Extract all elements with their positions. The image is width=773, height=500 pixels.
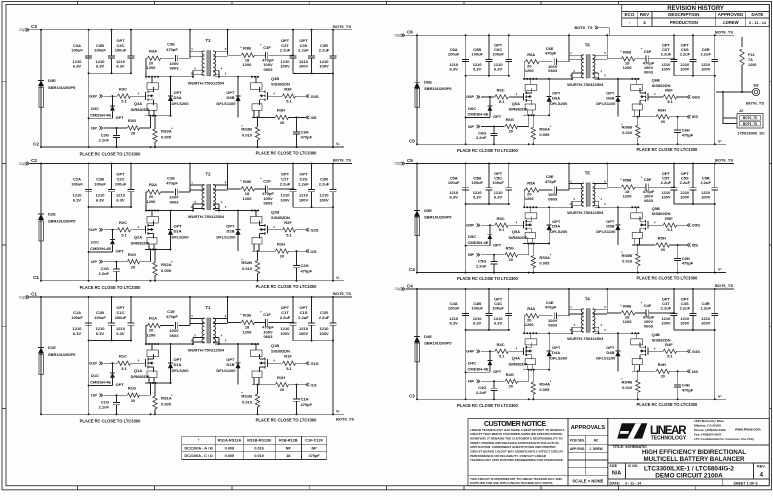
capacitor C5C optional (508, 164, 510, 188)
svg-text:BOT6_TS: BOT6_TS (743, 122, 757, 126)
svg-text:G1S: G1S (311, 361, 319, 366)
svg-text:100V: 100V (680, 195, 690, 200)
svg-text:0603: 0603 (548, 68, 558, 73)
resistor R3A snubber (146, 57, 148, 59)
svg-text:470pF: 470pF (682, 261, 694, 266)
svg-text:20: 20 (131, 264, 136, 269)
svg-text:100V: 100V (680, 321, 690, 326)
capacitor C6S optional (692, 35, 694, 59)
wire right cap tie (674, 75, 715, 77)
svg-text:OPT: OPT (493, 369, 502, 374)
svg-text:0.008: 0.008 (225, 446, 235, 450)
svg-text:BOT6_TS: BOT6_TS (746, 101, 764, 106)
svg-text:D3A: D3A (174, 95, 182, 100)
svg-text:IC NO.: IC NO. (628, 464, 638, 468)
connector J2 (723, 117, 737, 119)
linear technology logo (617, 423, 687, 441)
resistor R3B secondary snubber (228, 54, 242, 56)
gate drive G4S output (689, 350, 691, 353)
svg-text:RS2B: RS2B (241, 260, 252, 265)
diode D3A DFLS260 optional (170, 77, 172, 96)
svg-text:0603: 0603 (170, 333, 180, 338)
resistor R6B secondary snubber (607, 58, 621, 60)
svg-text:R4G: R4G (506, 372, 514, 377)
svg-text:6.3V: 6.3V (473, 195, 482, 200)
capacitor C4S optional (692, 289, 694, 313)
svg-text:Q4B: Q4B (652, 332, 660, 337)
svg-text:PLACE RC CLOSE TO LTC3300: PLACE RC CLOSE TO LTC3300 (636, 275, 698, 280)
svg-text:SiR882DP: SiR882DP (131, 374, 150, 379)
svg-text:SBR10U200P5: SBR10U200P5 (424, 214, 452, 219)
svg-text:DATE: DATE (751, 12, 763, 17)
svg-text:6.3V: 6.3V (73, 331, 82, 336)
svg-text:D5B: D5B (606, 224, 614, 229)
svg-text:C1H: C1H (301, 397, 309, 402)
svg-text:D6A: D6A (552, 95, 560, 100)
capacitor C4T optional (673, 289, 675, 313)
svg-text:0.005: 0.005 (161, 402, 172, 407)
svg-text:6.3V: 6.3V (450, 66, 459, 71)
svg-text:G1P: G1P (89, 361, 97, 366)
wire right edge vertical V- (332, 164, 334, 190)
svg-text:100V: 100V (661, 66, 671, 71)
svg-text:2.2uF: 2.2uF (319, 315, 330, 320)
svg-text:BOT6_TS: BOT6_TS (333, 291, 351, 296)
resistor R4C gate (495, 349, 508, 353)
resistor R1G (128, 393, 140, 397)
svg-text:0.005: 0.005 (539, 132, 550, 137)
svg-text:C6F: C6F (644, 49, 652, 54)
svg-text:R1C: R1C (119, 354, 127, 359)
svg-text:R2H: R2H (277, 241, 285, 246)
svg-text:100uF: 100uF (492, 180, 504, 185)
mosfet Q5A SiR882DP (529, 207, 531, 213)
svg-text:1206: 1206 (243, 329, 253, 334)
svg-text:D1C: D1C (91, 373, 99, 378)
svg-text:C6: C6 (407, 30, 413, 35)
svg-text:APP ENG.: APP ENG. (570, 447, 585, 451)
wire BOT6_TS to pad (716, 91, 752, 93)
svg-text:2.2uF: 2.2uF (700, 306, 711, 311)
mosfet Q4B SiS892DN (635, 333, 637, 339)
svg-text:C2: C2 (33, 141, 39, 146)
wire source row primary (526, 365, 528, 370)
svg-text:I3P: I3P (91, 126, 97, 131)
svg-text:470pF: 470pF (682, 132, 694, 137)
svg-text:470pF: 470pF (545, 51, 557, 56)
svg-text:C6(0): C6(0) (395, 33, 403, 37)
wire top rail C6 (417, 34, 734, 36)
diode D2B DFLS1100 optional (237, 211, 239, 230)
svg-text:2.2uF: 2.2uF (680, 52, 691, 57)
resistor R3H (258, 116, 276, 118)
sense resistor RS4A (532, 370, 534, 382)
svg-text:Q2A: Q2A (134, 235, 142, 240)
svg-text:SUPPLIED FOR USE WITH LINEAR T: SUPPLIED FOR USE WITH LINEAR TECHNOLOGY … (470, 481, 553, 485)
svg-text:BOT6_TS: BOT6_TS (333, 24, 351, 29)
svg-text:R5B: R5B (623, 178, 631, 183)
svg-text:RS6B: RS6B (622, 125, 633, 130)
svg-text:Q1B: Q1B (271, 343, 279, 348)
svg-text:6.3V: 6.3V (494, 321, 503, 326)
svg-text:DFLS260: DFLS260 (172, 368, 190, 373)
svg-text:OPT: OPT (116, 115, 125, 120)
svg-text:PLACE RC CLOSE TO LTC3300: PLACE RC CLOSE TO LTC3300 (256, 284, 318, 289)
svg-text:6.3V: 6.3V (450, 195, 459, 200)
svg-text:470pF: 470pF (301, 135, 313, 140)
svg-text:20: 20 (280, 254, 285, 259)
svg-text:J.DREW: J.DREW (722, 20, 738, 25)
svg-text:6.3V: 6.3V (96, 64, 105, 69)
wire snubber drop (145, 192, 147, 211)
diode D6B DFLS1100 optional (617, 79, 619, 97)
svg-text:D5E: D5E (424, 208, 432, 213)
wire right edge vertical V- (332, 297, 334, 323)
svg-text:10: 10 (569, 74, 573, 78)
svg-text:R6A: R6A (527, 52, 535, 57)
svg-text:R5C: R5C (497, 216, 505, 221)
svg-text:100V: 100V (680, 66, 690, 71)
svg-text:R1B-R12B: R1B-R12B (279, 439, 298, 443)
diode D2A DFLS260 optional (170, 211, 172, 230)
transformer T3 WURTH-750312504 (207, 51, 211, 76)
svg-text:D5A: D5A (552, 224, 560, 229)
sense resistor RS5A (532, 244, 534, 256)
svg-text:2.2uF: 2.2uF (298, 181, 309, 186)
svg-text:20: 20 (509, 384, 514, 389)
svg-text:2.2nF: 2.2nF (99, 137, 110, 142)
svg-text:G2P: G2P (89, 227, 97, 232)
svg-text:R4B: R4B (623, 303, 631, 308)
svg-text:RS3A: RS3A (161, 128, 172, 133)
svg-text:OPT: OPT (116, 382, 125, 387)
balancer cell block 6 (395, 29, 735, 153)
svg-text:6.3V: 6.3V (450, 321, 459, 326)
svg-text:I2P: I2P (91, 259, 97, 264)
resistor R4F gate secondary (648, 350, 663, 352)
svg-text:20: 20 (661, 247, 666, 252)
svg-text:5.1: 5.1 (286, 366, 292, 371)
svg-text:100uF: 100uF (492, 306, 504, 311)
gate drive G3S output (308, 94, 310, 97)
resistor R2A snubber (146, 191, 148, 193)
wire capacitor bus vertical (88, 30, 90, 147)
svg-text:LTC3300ILXE-1 / LTC6804IG-2: LTC3300ILXE-1 / LTC6804IG-2 (644, 465, 734, 472)
svg-text:100uF: 100uF (94, 48, 106, 53)
capacitor C6T optional (673, 35, 675, 59)
svg-text:D4C: D4C (468, 360, 476, 365)
svg-text:D1E: D1E (48, 345, 56, 350)
capacitor C4B (488, 289, 490, 313)
svg-text:PLACE RC CLOSE TO LTC3300: PLACE RC CLOSE TO LTC3300 (256, 150, 318, 155)
svg-text:2.2uF: 2.2uF (661, 52, 672, 57)
svg-text:RS4B: RS4B (622, 380, 633, 385)
svg-text:470pF: 470pF (545, 305, 557, 310)
resistor R2C gate (118, 228, 131, 232)
svg-text:R5F: R5F (665, 216, 673, 221)
svg-text:20: 20 (661, 119, 666, 124)
svg-text:2.2nF: 2.2nF (476, 390, 487, 395)
wire drain row primary (524, 332, 572, 334)
title block frame (608, 419, 770, 486)
svg-text:470pF: 470pF (301, 402, 313, 407)
balancer cell block 5 (395, 158, 735, 282)
wire left edge vertical (40, 164, 42, 281)
svg-text:C4(0): C4(0) (395, 287, 403, 291)
capacitor C3G filter (116, 128, 118, 135)
svg-text:BOT6_TS: BOT6_TS (574, 25, 592, 30)
capacitor C5A (465, 164, 467, 188)
svg-text:0.010: 0.010 (242, 400, 253, 405)
svg-text:R3C: R3C (119, 86, 127, 91)
wire right edge vertical V- (714, 289, 716, 313)
resistor R4A snubber (524, 315, 526, 317)
svg-text:DESCRIPTION: DESCRIPTION (668, 12, 700, 17)
resistor R5C gate (495, 223, 508, 227)
svg-text:2.2uF: 2.2uF (319, 181, 330, 186)
svg-text:0.005: 0.005 (225, 454, 235, 458)
wire right edge vertical V- (714, 164, 716, 188)
svg-text:1206: 1206 (147, 332, 157, 337)
svg-text:5.1: 5.1 (121, 99, 127, 104)
svg-text:2.2uF: 2.2uF (661, 180, 672, 185)
svg-text:100V: 100V (319, 64, 329, 69)
wire source row primary (526, 110, 528, 115)
svg-text:DFLS1100: DFLS1100 (596, 229, 616, 234)
svg-text:6.3V: 6.3V (116, 331, 125, 336)
svg-text:R6B: R6B (623, 49, 631, 54)
wire top rail C3 (41, 29, 352, 31)
svg-text:PCB DES.: PCB DES. (570, 439, 585, 443)
svg-text:C1(0): C1(0) (19, 295, 27, 299)
diode D6C CMDSH-4E optional (489, 97, 491, 106)
svg-text:C3: C3 (409, 394, 415, 399)
svg-text:REV.: REV. (757, 465, 766, 469)
diode D5C CMDSH-4E optional (489, 225, 491, 234)
svg-text:0603: 0603 (170, 66, 180, 71)
diode D1B DFLS1100 optional (237, 344, 239, 363)
capacitor C1A (88, 297, 90, 323)
svg-text:WURTH-750312504: WURTH-750312504 (567, 210, 604, 215)
svg-text:0.010: 0.010 (622, 130, 633, 135)
svg-text:T5: T5 (585, 171, 591, 176)
svg-text:R2F: R2F (284, 220, 292, 225)
svg-text:470pF: 470pF (166, 181, 178, 186)
wire capacitor bottom tie (466, 75, 509, 77)
svg-text:SHEET 1 OF 6: SHEET 1 OF 6 (734, 481, 758, 485)
svg-text:100V: 100V (299, 64, 309, 69)
wire right cap tie (674, 203, 715, 205)
capacitor C4F secondary snubber (635, 312, 646, 314)
wire drain row secondary (215, 343, 259, 345)
svg-text:20: 20 (280, 387, 285, 392)
svg-text:R2B: R2B (243, 179, 251, 184)
wire capacitor bottom tie (89, 72, 131, 74)
svg-text:0.010: 0.010 (254, 454, 264, 458)
wire source row secondary (633, 110, 635, 117)
svg-text:PLACE RC CLOSE TO LTC3300: PLACE RC CLOSE TO LTC3300 (457, 403, 519, 408)
svg-text:1206: 1206 (623, 65, 633, 70)
svg-text:100uF: 100uF (71, 315, 83, 320)
capacitor C5B (488, 164, 490, 188)
svg-text:PLACE RC CLOSE TO LTC3300: PLACE RC CLOSE TO LTC3300 (457, 148, 519, 153)
svg-text:RS6A: RS6A (539, 127, 550, 132)
svg-text:V-: V- (336, 275, 340, 280)
mosfet Q6A SiR882DP (529, 79, 531, 85)
svg-text:SBR10U200P5: SBR10U200P5 (424, 86, 452, 91)
svg-text:5.1: 5.1 (121, 366, 127, 371)
wire capacitor bus vertical (465, 289, 467, 399)
resistor R1C gate (118, 361, 131, 365)
capacitor C3B (111, 30, 113, 56)
transformer T2 WURTH-750312504 (207, 185, 211, 210)
wire bottom rail (41, 413, 344, 415)
svg-text:C1F-C12F: C1F-C12F (305, 439, 323, 443)
svg-text:R3A: R3A (149, 48, 157, 53)
svg-text:DFLS1100: DFLS1100 (216, 235, 236, 240)
svg-text:470pF: 470pF (545, 179, 557, 184)
balancer cell block 3 (19, 24, 352, 157)
svg-text:0.016: 0.016 (254, 446, 264, 450)
wire drain row primary (146, 210, 193, 212)
svg-text:100uF: 100uF (94, 315, 106, 320)
capacitor C3H (296, 117, 298, 131)
svg-text:DEMO CIRCUIT 2100A: DEMO CIRCUIT 2100A (655, 473, 723, 480)
wire snubber drop (145, 58, 147, 77)
resistor R3F gate secondary (268, 95, 283, 97)
svg-text:2.2uF: 2.2uF (700, 52, 711, 57)
svg-text:RS1A: RS1A (161, 396, 172, 401)
svg-text:G3P: G3P (89, 93, 97, 98)
svg-text:R6F: R6F (665, 88, 673, 93)
svg-text:1206: 1206 (147, 65, 157, 70)
svg-text:Phone: (408)432-1900: Phone: (408)432-1900 (694, 428, 726, 432)
svg-text:R4C: R4C (497, 342, 505, 347)
balancer cell block 4 (395, 283, 735, 408)
svg-text:C1: C1 (31, 291, 37, 296)
svg-text:C3(0): C3(0) (19, 28, 27, 32)
wire drain row secondary (595, 332, 640, 334)
capacitor C4C optional (508, 289, 510, 313)
wire capacitor bottom tie (89, 340, 131, 342)
mosfet Q5B SiS892DN (635, 207, 637, 213)
svg-text:APPROVED: APPROVED (718, 12, 744, 17)
capacitor C1C optional (130, 297, 132, 323)
svg-text:R4H: R4H (658, 362, 666, 367)
svg-text:I3S: I3S (311, 115, 317, 120)
transformer T5 WURTH-750312504 (586, 183, 590, 206)
resistor R6H (638, 116, 656, 118)
wire right cap tie (293, 206, 333, 208)
sense resistor RS1A (154, 383, 156, 396)
svg-text:100V: 100V (319, 197, 329, 202)
svg-text:REV: REV (640, 12, 650, 17)
gate drive G2S output (308, 228, 310, 231)
capacitor C3E snubber (175, 55, 177, 62)
svg-text:R2C: R2C (119, 220, 127, 225)
svg-text:C2F: C2F (263, 179, 271, 184)
svg-text:SBR10U200P5: SBR10U200P5 (48, 85, 76, 90)
svg-text:100uF: 100uF (448, 306, 460, 311)
svg-text:470pF: 470pF (309, 454, 321, 458)
svg-text:1206: 1206 (525, 196, 535, 201)
resistor R6A snubber (524, 61, 526, 63)
capacitor C3S optional (311, 30, 313, 56)
wire bottom rail (41, 146, 344, 148)
svg-text:6.3V: 6.3V (494, 66, 503, 71)
svg-text:1206: 1206 (748, 63, 756, 67)
svg-text:6.3V: 6.3V (96, 331, 105, 336)
capacitor C1T optional (292, 297, 294, 323)
svg-text:100uF: 100uF (71, 181, 83, 186)
svg-text:CMDSH-4E: CMDSH-4E (468, 112, 489, 117)
svg-text:N/A: N/A (612, 471, 621, 477)
sense resistor RS6A (532, 115, 534, 127)
capacitor C3A (88, 30, 90, 56)
svg-text:100V: 100V (701, 195, 711, 200)
diode D5B DFLS1100 optional (617, 207, 619, 225)
svg-text:6.3V: 6.3V (473, 66, 482, 71)
current sense I1S output (308, 383, 310, 386)
svg-text:SBR10U200P5: SBR10U200P5 (424, 341, 452, 346)
svg-text:I1P: I1P (91, 393, 97, 398)
capacitor C3T optional (292, 30, 294, 56)
svg-text:5.1: 5.1 (499, 99, 505, 104)
svg-text:CMDSH-4E: CMDSH-4E (468, 240, 489, 245)
svg-text:5.1: 5.1 (286, 99, 292, 104)
diode D3B DFLS1100 optional (237, 77, 239, 96)
svg-text:100V: 100V (661, 195, 671, 200)
svg-text:C5: C5 (409, 139, 415, 144)
wire right cap tie (674, 329, 715, 331)
svg-text:RS2A: RS2A (161, 262, 172, 267)
svg-text:1206: 1206 (243, 62, 253, 67)
svg-text:C5: C5 (407, 158, 413, 163)
svg-text:100V: 100V (319, 331, 329, 336)
svg-text:D2E: D2E (48, 212, 56, 217)
svg-text:100uF: 100uF (115, 181, 127, 186)
border frame ticks (76, 2, 78, 5)
svg-text:0603: 0603 (170, 199, 180, 204)
svg-text:D3C: D3C (91, 106, 99, 111)
wire capacitor bottom tie (466, 203, 509, 205)
svg-text:0603: 0603 (264, 67, 274, 72)
svg-text:1206: 1206 (623, 193, 633, 198)
gate drive G5S output (689, 224, 691, 227)
mosfet Q3B SiS892DN (255, 77, 257, 83)
svg-text:D3E: D3E (48, 78, 56, 83)
svg-text:10: 10 (190, 205, 194, 209)
svg-text:R3B: R3B (243, 45, 251, 50)
resistor R6G (505, 124, 517, 128)
svg-text:SIZE: SIZE (610, 464, 618, 468)
svg-text:20: 20 (509, 129, 514, 134)
resistor R3G (128, 126, 140, 130)
capacitor C4A (465, 289, 467, 313)
svg-text:RS1B: RS1B (241, 394, 252, 399)
svg-text:18: 18 (286, 454, 290, 458)
wire drain row secondary (215, 76, 259, 78)
wire top rail C5 (417, 163, 734, 165)
svg-text:DFLS1100: DFLS1100 (216, 368, 236, 373)
capacitor C1B (111, 297, 113, 323)
diode D4A DFLS260 optional (548, 333, 550, 351)
svg-text:SiR882DP: SiR882DP (131, 107, 150, 112)
svg-text:6.3V: 6.3V (473, 321, 482, 326)
svg-text:DFLS260: DFLS260 (172, 235, 190, 240)
wire right cap tie (293, 340, 333, 342)
svg-text:0.005: 0.005 (539, 260, 550, 265)
